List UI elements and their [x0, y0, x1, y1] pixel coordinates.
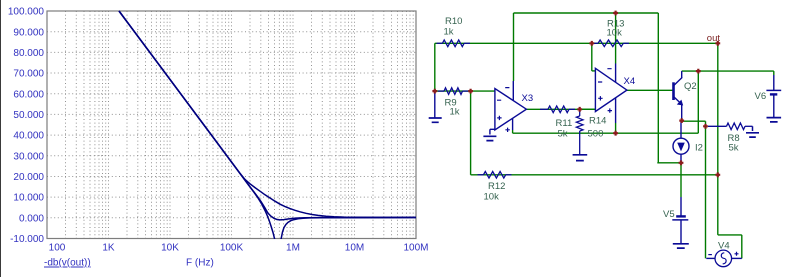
current source I2 [680, 121, 682, 139]
resistor R11 [540, 108, 548, 110]
window left border [0, 0, 2, 277]
wire Q2 emitter row y=121.2 [682, 120, 706, 122]
svg-text:90.000: 90.000 [13, 27, 44, 38]
wire collector node down x=698.3 [697, 71, 699, 133]
wire R9 row y=91.1 [435, 90, 495, 92]
node X4 V- on rail [613, 131, 618, 136]
svg-text:50.000: 50.000 [13, 110, 44, 121]
resistor R12 [478, 174, 484, 176]
trace A (-db(v(out)) low-Q) [119, 11, 416, 217]
svg-text:-db(v(out)): -db(v(out)) [44, 258, 91, 269]
node out corner [715, 41, 720, 46]
node R13 left node [589, 41, 594, 46]
svg-text:V4: V4 [718, 241, 730, 252]
node R12 end node [715, 172, 720, 177]
wire I2 bottom row y=162.8 [657, 162, 681, 164]
node R9 left node [432, 89, 437, 94]
wire top feedback y=13 [514, 12, 659, 14]
svg-text:10.000: 10.000 [13, 193, 44, 204]
svg-text:X4: X4 [624, 76, 636, 87]
resistor R10 [437, 42, 443, 44]
svg-text:10M: 10M [345, 243, 364, 254]
wire X3 out / R11 row y=109.3 [526, 108, 595, 110]
wire out vertical x=717.8 [717, 43, 719, 235]
grid minor/major dotted lines [47, 11, 416, 239]
svg-text:60.000: 60.000 [13, 89, 44, 100]
wire to X3 V+ pin x=513.5 [513, 13, 515, 81]
svg-text:R14: R14 [589, 116, 606, 127]
wire X4 V- pin to rail x=615.6 [615, 123, 617, 133]
wire R9 node down to R12 x=470.6 [470, 91, 472, 175]
svg-text:10K: 10K [161, 243, 179, 254]
svg-text:100: 100 [49, 243, 66, 254]
resistor R8 [708, 125, 727, 127]
svg-text:100K: 100K [220, 243, 244, 254]
node top wire / X4 V+ tap [613, 11, 618, 16]
wire long vertical x=658.3 [657, 13, 659, 163]
ground at X3 +input [490, 128, 495, 130]
wire X3 V- pin to rail x=512.6 [512, 130, 514, 133]
transistor Q2 [672, 82, 675, 100]
trace B (-db(v(out)) mid-Q) [119, 11, 416, 220]
svg-text:20.000: 20.000 [13, 172, 44, 183]
node I2 bottom node [679, 160, 684, 165]
sine source V4 [706, 257, 715, 259]
svg-text:100.000: 100.000 [8, 7, 45, 18]
wire left column x=434.8 [434, 43, 436, 91]
svg-text:F (Hz): F (Hz) [186, 258, 214, 269]
wire emitter node down to V4- x=705.5 [705, 121, 707, 258]
svg-text:1k: 1k [444, 26, 454, 37]
node collector node tap [696, 69, 701, 74]
wire power rail y=133.2 [513, 132, 699, 134]
ground at R8 right [746, 133, 759, 137]
ground under V5 [673, 244, 689, 248]
svg-text:30.000: 30.000 [13, 151, 44, 162]
svg-text:10k: 10k [484, 192, 500, 203]
svg-text:V6: V6 [755, 91, 767, 102]
wire R12 long row y=174.8 [471, 174, 718, 176]
node emitter/I2 node [679, 118, 684, 123]
node R11/R14/X4+ node [577, 107, 582, 112]
plot border [47, 11, 416, 239]
trace C (-db(v(out)) high-Q notch) [119, 11, 416, 246]
wire V4 upper jog y=234.9 [718, 234, 742, 236]
svg-text:80.000: 80.000 [13, 48, 44, 59]
wire R13 left down to X4 -in x=591.8 [591, 43, 593, 71]
wire X4 out to Q2 base y=90.3 [627, 89, 673, 91]
resistor R13 [592, 42, 598, 44]
svg-text:1K: 1K [102, 243, 115, 254]
battery V5 [680, 197, 682, 216]
ground under V6 [767, 118, 782, 122]
svg-text:1k: 1k [450, 107, 460, 118]
schematic panel [429, 11, 782, 267]
wire I2 to V5 x=681 [680, 163, 682, 197]
svg-text:Q2: Q2 [684, 81, 697, 92]
wire V6 corner [773, 71, 775, 75]
wire R14/X4 +in jog [580, 108, 596, 110]
svg-text:500: 500 [588, 129, 604, 140]
svg-text:X3: X3 [522, 93, 534, 104]
node R8 left node [703, 124, 708, 129]
wire V4+ drop x=741.8 [741, 235, 743, 259]
svg-text:1M: 1M [286, 243, 300, 254]
ground under R9 left node [434, 91, 436, 117]
resistor R9 [438, 90, 444, 92]
svg-text:100M: 100M [403, 243, 428, 254]
wire to X4 V+ pin x=615.6 [615, 13, 617, 64]
wire main row y=43.3 (R10/R13/out net) [435, 42, 718, 44]
svg-text:R11: R11 [556, 118, 573, 129]
svg-text:5k: 5k [729, 143, 739, 154]
battery V6 [773, 75, 775, 90]
svg-text:-10.000: -10.000 [10, 234, 44, 245]
svg-text:R12: R12 [488, 181, 505, 192]
node R9/X3- node [468, 89, 473, 94]
resistor R14 [579, 109, 581, 116]
svg-text:V5: V5 [663, 209, 675, 220]
svg-text:40.000: 40.000 [13, 131, 44, 142]
svg-text:70.000: 70.000 [13, 69, 44, 80]
op-amp X4 [595, 68, 627, 111]
svg-text:I2: I2 [695, 143, 703, 154]
svg-text:0.000: 0.000 [19, 213, 44, 224]
svg-text:5k: 5k [558, 129, 568, 140]
ground under R14 [573, 155, 588, 161]
op-amp X3 [495, 89, 527, 130]
wire collector/V6 row y=71.1 [682, 70, 774, 72]
svg-text:10k: 10k [607, 28, 623, 39]
plot panel [1, 0, 429, 277]
